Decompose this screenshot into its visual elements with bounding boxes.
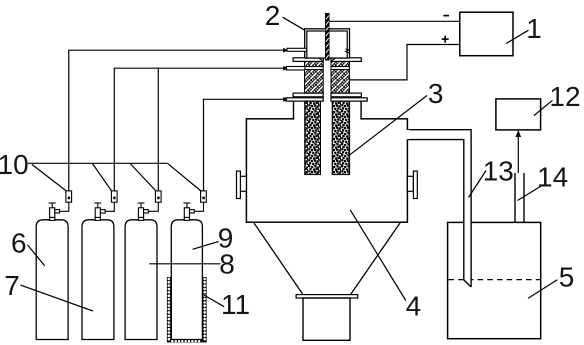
- svg-text:5: 5: [559, 261, 575, 292]
- svg-text:3: 3: [428, 78, 444, 109]
- svg-text:10: 10: [0, 149, 29, 180]
- svg-text:14: 14: [537, 162, 568, 193]
- svg-text:6: 6: [11, 227, 27, 258]
- svg-text:7: 7: [4, 270, 20, 301]
- svg-text:4: 4: [406, 291, 422, 322]
- svg-text:1: 1: [526, 13, 542, 44]
- svg-text:2: 2: [265, 0, 281, 31]
- svg-text:9: 9: [218, 223, 234, 254]
- svg-text:11: 11: [221, 289, 250, 320]
- svg-text:13: 13: [483, 155, 514, 186]
- svg-text:12: 12: [549, 81, 580, 112]
